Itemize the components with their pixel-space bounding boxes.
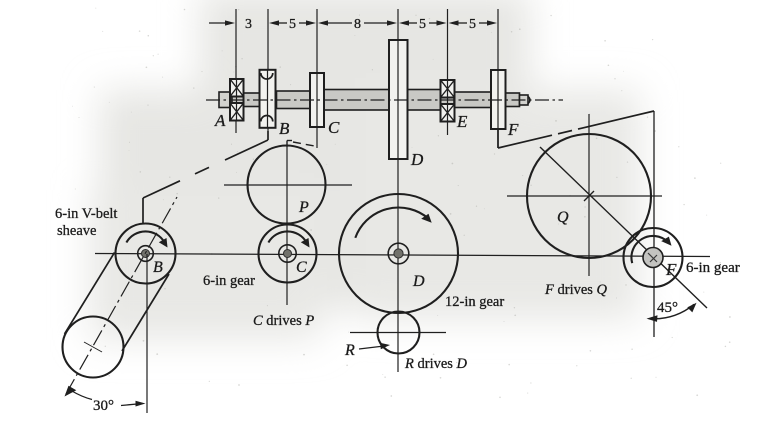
main horizontal centerline of gear train xyxy=(95,254,710,257)
shaft segment B-C xyxy=(277,91,311,109)
svg-text:C: C xyxy=(296,259,307,276)
label Q xyxy=(557,209,569,226)
dimension 5 (E-F) xyxy=(449,17,498,32)
shaft journal at E xyxy=(441,93,454,107)
label P xyxy=(298,199,309,216)
shaft segment D-E xyxy=(408,90,442,111)
svg-text:A: A xyxy=(214,111,226,130)
svg-text:D: D xyxy=(412,273,425,290)
frame corner below sheave B xyxy=(267,131,269,140)
label R drives D xyxy=(404,356,468,372)
rotation arrow on F xyxy=(631,236,671,263)
label C drives P xyxy=(253,313,314,329)
horizontal centerline of Q xyxy=(507,195,662,197)
label B (side view) xyxy=(279,119,290,138)
rotation arrow on D xyxy=(355,208,431,238)
label B (front view) xyxy=(153,259,163,276)
horizontal centerline of R xyxy=(350,332,446,334)
label F drives Q xyxy=(544,282,608,298)
dimension 3 (A-B) xyxy=(209,17,252,32)
svg-text:sheave: sheave xyxy=(57,223,96,239)
shaft centerline xyxy=(206,99,563,101)
V-belt sheave B (front view) xyxy=(116,224,176,284)
label F (front view) xyxy=(665,260,677,279)
svg-text:12-in gear: 12-in gear xyxy=(445,294,504,310)
svg-text:45°: 45° xyxy=(657,300,678,316)
svg-text:R drives D: R drives D xyxy=(404,356,468,372)
gear C (side view) xyxy=(310,73,324,127)
label R xyxy=(344,342,355,359)
dimension 8 (C-D) xyxy=(318,17,397,32)
belt centerline (phantom) xyxy=(66,197,177,394)
svg-text:6-in V-belt: 6-in V-belt xyxy=(55,206,117,222)
shaft segment F-end xyxy=(506,93,531,107)
station extension line B xyxy=(267,9,269,131)
svg-text:3: 3 xyxy=(245,17,252,32)
driven pulley (front view) xyxy=(63,317,124,378)
rotation arrow on B xyxy=(126,231,167,247)
label D (side view) xyxy=(410,150,424,169)
svg-text:F drives Q: F drives Q xyxy=(544,282,608,298)
svg-text:C drives P: C drives P xyxy=(253,313,314,329)
dimension 5 (D-E) xyxy=(399,17,447,32)
label D (front view) xyxy=(412,273,425,290)
gear F (side view) xyxy=(491,70,506,129)
45-degree arc with arrows xyxy=(647,303,697,322)
shaft left stub xyxy=(219,92,232,108)
svg-text:F: F xyxy=(665,260,677,279)
label C (front view) xyxy=(296,259,307,276)
vertical centerline through P and C xyxy=(286,147,288,305)
gear P (front view) xyxy=(248,146,326,224)
svg-text:6-in gear: 6-in gear xyxy=(203,273,255,289)
svg-text:P: P xyxy=(298,199,309,216)
label C (side view) xyxy=(328,118,340,137)
belt line left xyxy=(65,253,115,335)
station extension line C xyxy=(316,9,318,148)
svg-text:Q: Q xyxy=(557,209,569,226)
gear C (front view) xyxy=(259,225,317,283)
dimension 5 (B-C) xyxy=(269,17,316,32)
bearing E xyxy=(441,80,455,122)
label 6-in V-belt sheave xyxy=(55,206,117,239)
frame vertical (right) / centerline of F front view xyxy=(653,111,655,337)
label 12-in gear xyxy=(445,294,504,310)
rotation arrow on C xyxy=(268,231,309,247)
svg-text:B: B xyxy=(279,119,290,138)
dashed projection C to P xyxy=(293,142,317,147)
shaft segment E-F xyxy=(454,92,491,108)
45 deg label xyxy=(657,300,678,316)
bearing A xyxy=(230,79,244,121)
svg-text:5: 5 xyxy=(469,17,476,32)
frame corner below gear F xyxy=(497,129,499,148)
frame diagonal (left, with phantom break) xyxy=(143,140,268,198)
svg-text:D: D xyxy=(410,150,424,169)
V-belt sheave B (side view) xyxy=(260,70,276,128)
gear Q (front view) xyxy=(527,134,651,258)
label F (side view) xyxy=(507,120,519,139)
station extension line E xyxy=(447,9,449,135)
label 6-in gear (right) xyxy=(686,260,740,276)
vertical centerline of Q xyxy=(588,114,590,276)
frame diagonal (right, with phantom break) xyxy=(498,111,654,148)
svg-text:R: R xyxy=(344,342,355,359)
shaft segment A-B xyxy=(232,93,261,107)
label A xyxy=(214,111,226,130)
frame vertical (left) xyxy=(142,198,144,224)
svg-text:8: 8 xyxy=(354,17,361,32)
svg-text:B: B xyxy=(153,259,163,276)
station extension line F xyxy=(497,9,499,148)
svg-text:F: F xyxy=(507,120,519,139)
svg-text:6-in gear: 6-in gear xyxy=(686,260,740,276)
svg-text:5: 5 xyxy=(289,17,296,32)
horizontal centerline of P xyxy=(224,184,352,186)
gear D (front view) xyxy=(339,194,458,313)
30-degree reference vertical xyxy=(146,254,148,413)
30 deg label xyxy=(93,398,114,414)
R label leader arrow xyxy=(359,343,390,349)
gear R (front view) xyxy=(378,312,420,354)
station centerlines through components xyxy=(237,40,499,159)
svg-text:30°: 30° xyxy=(93,398,114,414)
shaft segment C-D xyxy=(324,90,389,111)
svg-text:E: E xyxy=(456,112,468,131)
belt line right xyxy=(122,274,169,351)
pulley center tick xyxy=(84,342,102,352)
gear D (side view) xyxy=(389,40,408,159)
45-degree line through Q and F xyxy=(540,147,707,308)
station extension line A xyxy=(235,9,237,133)
label 6-in gear (left) xyxy=(203,273,255,289)
projection stub above P xyxy=(287,141,292,148)
svg-text:5: 5 xyxy=(419,17,426,32)
gear F (front view) xyxy=(624,228,683,287)
station extension line D (runs down through front view) xyxy=(397,9,399,372)
30-degree arc with arrows xyxy=(65,386,146,407)
svg-text:C: C xyxy=(328,118,340,137)
label E (side view) xyxy=(456,112,468,131)
